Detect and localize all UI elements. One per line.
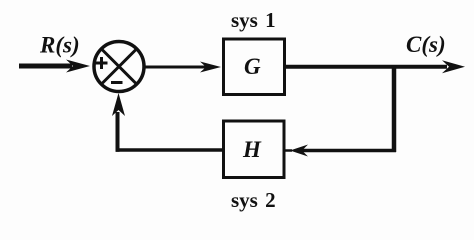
minus sign <box>111 81 123 84</box>
summing junction circle <box>94 42 144 92</box>
svg-text:C(s): C(s) <box>406 32 446 57</box>
output arrowhead C(s) <box>442 60 465 73</box>
wire: vertical up to summing junction <box>116 112 120 152</box>
summing junction X cross diagonal 1 <box>102 49 137 84</box>
svg-text:R(s): R(s) <box>39 33 80 58</box>
svg-text:sys 2: sys 2 <box>231 188 276 212</box>
summing junction X cross diagonal 2 <box>102 49 137 84</box>
wire: feedback horizontal into H <box>300 149 396 153</box>
block G <box>224 39 285 95</box>
svg-text:sys 1: sys 1 <box>231 8 276 32</box>
wire: input R(s) line <box>19 64 72 69</box>
wire: H output to left <box>116 148 224 152</box>
wire: vertical branch down from output node <box>392 65 397 152</box>
svg-text:G: G <box>244 54 261 79</box>
input arrowhead into summing junction <box>66 60 90 73</box>
arrowhead into H <box>290 145 308 157</box>
arrowhead into G <box>200 62 221 73</box>
plus sign <box>96 62 108 65</box>
wire: summing junction to G <box>144 66 207 69</box>
wire: G output line <box>286 65 447 69</box>
svg-text:H: H <box>242 137 262 162</box>
arrowhead up into summing junction <box>112 93 125 116</box>
block H <box>224 121 285 178</box>
